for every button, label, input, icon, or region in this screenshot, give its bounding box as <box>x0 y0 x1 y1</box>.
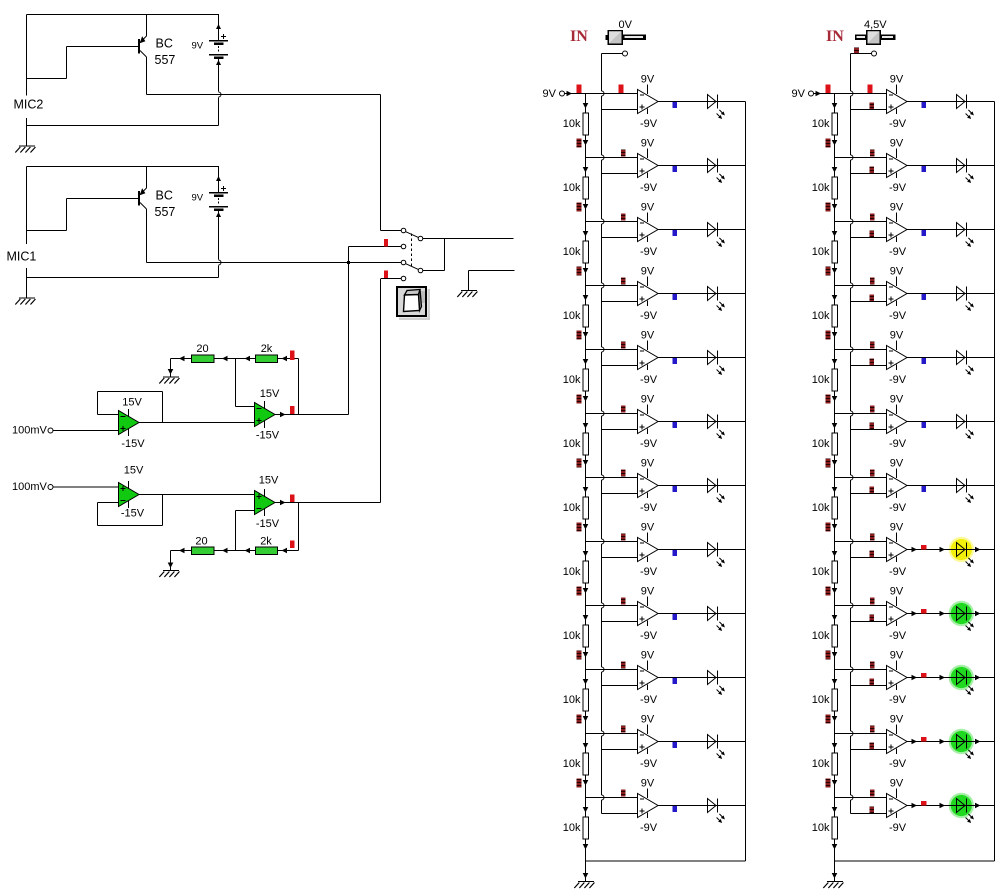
wire ladder tap to - input row 12 <box>586 797 638 799</box>
svg-text:9V: 9V <box>641 778 655 790</box>
wire comparator output row 1 <box>907 101 995 103</box>
wire + input stub row 6 <box>851 429 887 431</box>
wire + input stub row 2 <box>851 173 887 175</box>
resistor 10k #7 column B <box>832 497 838 519</box>
svg-text:10k: 10k <box>563 118 581 130</box>
current tick dark + input row 9 <box>870 615 875 622</box>
voltage tick blue output row 1 <box>673 102 678 108</box>
svg-text:557: 557 <box>155 53 176 67</box>
current arrow ladder below R row 6 <box>832 460 838 466</box>
wire comparator output row 12 <box>907 805 995 807</box>
voltage tick blue output row 3 <box>922 230 927 236</box>
svg-text:-9V: -9V <box>640 566 658 578</box>
wire comparator output row 11 <box>658 741 746 743</box>
current tick dark + input row 3 <box>870 231 875 238</box>
current tick dark + input row 4 <box>870 295 875 302</box>
resistor 10k #3 column A <box>583 241 589 263</box>
voltage tick blue output row 2 <box>922 166 927 172</box>
resistor 10k #12 column A <box>583 817 589 839</box>
LED DB9 <box>957 607 974 632</box>
resistor 10k #6 column B <box>832 433 838 455</box>
svg-text:-9V: -9V <box>640 246 658 258</box>
op-amp comparator UA8 <box>638 533 659 563</box>
svg-text:9V: 9V <box>890 74 904 86</box>
svg-text:9V: 9V <box>890 202 904 214</box>
op-amp U4 <box>255 489 276 516</box>
current tick dark ladder row 11 <box>826 779 831 788</box>
svg-text:9V: 9V <box>641 586 655 598</box>
current tick dark + input row 7 <box>870 487 875 494</box>
current arrow ladder above R row 7 <box>583 487 589 493</box>
svg-text:-9V: -9V <box>889 758 907 770</box>
LED glow green row 12 <box>949 793 974 818</box>
voltage tick blue output row 9 <box>673 614 678 620</box>
current tick dark ladder row 8 <box>826 587 831 596</box>
wire ladder tap to - input row 3 <box>586 221 638 223</box>
current tick red output row 8 <box>921 545 927 550</box>
op-amp comparator UA5 <box>638 341 659 371</box>
LED DA8 <box>708 543 725 568</box>
LED glow green row 11 <box>949 729 974 754</box>
LED DB7 <box>957 479 974 504</box>
wire comparator output row 5 <box>907 357 995 359</box>
current tick dark on IN wire <box>854 48 859 54</box>
LED DB6 <box>957 415 974 440</box>
current arrow ladder above R row 8 <box>583 551 589 557</box>
wire left rail upper MIC1 <box>26 167 28 245</box>
wire ladder tap to - input row 11 <box>586 733 638 735</box>
wire comparator output row 12 <box>658 805 746 807</box>
current arrow ladder above R row 12 <box>583 807 589 813</box>
current arrow ladder below R row 6 <box>583 460 589 466</box>
wire joining both poles outputs <box>444 239 446 271</box>
current arrow ladder above R row 4 <box>583 295 589 301</box>
op-amp comparator UB10 <box>887 661 908 691</box>
current tick dark ladder row 7 <box>577 523 582 532</box>
current tick dark ladder row 2 <box>826 203 831 212</box>
wire ladder tap to - input row 7 <box>835 477 887 479</box>
current tick dark ladder row 5 <box>826 395 831 404</box>
wire ladder tap to - input row 5 <box>586 349 638 351</box>
current arrow ladder above R row 10 <box>583 679 589 685</box>
wire comparator output row 2 <box>907 165 995 167</box>
resistor 10k #10 column A <box>583 689 589 711</box>
current tick dark - input row 4 <box>870 278 875 285</box>
LED DA11 <box>708 735 725 760</box>
terminal IN circle (column A) <box>623 51 628 56</box>
ground near switch <box>457 291 477 298</box>
current arrows resistor row bottom <box>179 548 185 554</box>
wire top rail MIC1 block <box>27 166 220 168</box>
wire IN terminal (column A) <box>602 53 623 55</box>
wire 100mV to U3 + input <box>53 486 119 488</box>
wire + input stub row 10 <box>851 685 887 687</box>
wire comparator output row 7 <box>658 485 746 487</box>
LED cathode rail column A <box>745 102 747 862</box>
svg-text:9V: 9V <box>192 193 204 204</box>
op-amp comparator UB6 <box>887 405 908 435</box>
svg-text:-9V: -9V <box>889 822 907 834</box>
current arrow ladder above R row 9 <box>583 615 589 621</box>
wire ladder tap to - input row 2 <box>835 157 887 159</box>
current tick dark - input row 3 <box>870 214 875 221</box>
svg-text:9V: 9V <box>890 778 904 790</box>
wire left rail lower MIC2 <box>26 118 28 146</box>
op-amp comparator UB2 <box>887 149 908 179</box>
op-amp U1 <box>119 409 140 436</box>
current arrow ladder below R row 10 <box>832 716 838 722</box>
current tick dark + input row 6 <box>870 423 875 430</box>
op-amp comparator UA7 <box>638 469 659 499</box>
terminal IN circle (column B) <box>872 51 877 56</box>
svg-text:-9V: -9V <box>640 310 658 322</box>
op-amp comparator UB7 <box>887 469 908 499</box>
svg-text:10k: 10k <box>812 502 830 514</box>
svg-text:0V: 0V <box>619 19 633 31</box>
current tick dark ladder row 3 <box>826 267 831 276</box>
switch S1 rocker icon <box>397 287 430 320</box>
svg-text:BC: BC <box>156 37 173 51</box>
resistor 10k #8 column B <box>832 561 838 583</box>
current arrow ladder below R row 7 <box>583 524 589 530</box>
svg-text:9V: 9V <box>641 522 655 534</box>
svg-text:10k: 10k <box>812 118 830 130</box>
resistor ladder chain wire column B <box>834 94 836 862</box>
+ input bus wire column B (with hops) <box>850 54 852 92</box>
svg-text:-9V: -9V <box>889 182 907 194</box>
current tick dark - input row 12 <box>870 790 875 797</box>
svg-text:-15V: -15V <box>121 508 145 520</box>
wire + input stub row 12 <box>602 813 638 815</box>
current arrow 9V input <box>816 91 822 97</box>
+ input bus wire column A (with hops) <box>601 54 603 92</box>
current arrow ladder below R row 3 <box>832 268 838 274</box>
svg-text:10k: 10k <box>563 694 581 706</box>
wire U1 feedback loop <box>98 414 119 416</box>
wire + input stub row 4 <box>851 301 887 303</box>
svg-text:-9V: -9V <box>640 502 658 514</box>
voltage tick blue output row 5 <box>673 358 678 364</box>
op-amp comparator UB3 <box>887 213 908 243</box>
ground stub column A <box>585 861 587 882</box>
current tick dark - input row 2 <box>621 150 626 157</box>
current tick dark ladder row 11 <box>577 779 582 788</box>
current tick dark - input row 9 <box>621 598 626 605</box>
current arrow ladder below R row 1 <box>583 140 589 146</box>
voltage tick blue output row 11 <box>673 742 678 748</box>
resistor 10k #10 column B <box>832 689 838 711</box>
wire + input stub row 5 <box>851 365 887 367</box>
svg-text:2k: 2k <box>260 536 272 548</box>
current tick dark + input row 1 <box>870 103 875 110</box>
svg-text:10k: 10k <box>812 182 830 194</box>
wire top rail MIC2 block <box>27 14 220 16</box>
op-amp comparator UB8 <box>887 533 908 563</box>
wire collector MIC2 to switch <box>147 94 381 96</box>
ground bottom resistor row <box>159 571 179 578</box>
LED DB8 <box>957 543 974 568</box>
current arrow ladder below R row 5 <box>583 396 589 402</box>
wire comparator output row 3 <box>907 229 995 231</box>
current tick dark - input row 8 <box>621 534 626 541</box>
current arrow ladder above R row 8 <box>832 551 838 557</box>
voltage tick blue output row 5 <box>922 358 927 364</box>
LED cathode rail column B <box>994 102 996 862</box>
wire ladder tap to - input row 3 <box>835 221 887 223</box>
voltage tick blue output row 6 <box>673 422 678 428</box>
voltage tick blue output row 8 <box>673 550 678 556</box>
wire + input stub row 8 <box>602 557 638 559</box>
svg-text:9V: 9V <box>543 88 557 100</box>
LED glow yellow row 8 <box>949 537 974 562</box>
svg-text:-9V: -9V <box>640 758 658 770</box>
svg-text:10k: 10k <box>812 694 830 706</box>
current tick dark ladder row 5 <box>577 395 582 404</box>
current arrow ladder above R row 2 <box>832 167 838 173</box>
current tick red top row <box>290 351 295 361</box>
wire comparator output row 4 <box>658 293 746 295</box>
current arrow ladder below R row 3 <box>583 268 589 274</box>
svg-text:2k: 2k <box>261 343 273 355</box>
current arrow ladder above R row 7 <box>832 487 838 493</box>
current arrow ladder above R row 9 <box>832 615 838 621</box>
current arrow ladder below R row 8 <box>832 588 838 594</box>
svg-text:-9V: -9V <box>889 566 907 578</box>
ground below MIC1 <box>15 298 35 305</box>
current tick dark - input row 11 <box>621 726 626 733</box>
op-amp U2 <box>255 401 276 428</box>
svg-text:-9V: -9V <box>889 502 907 514</box>
current arrow U4 output <box>280 500 286 506</box>
wire ground return rail MIC2 <box>27 125 219 127</box>
svg-text:10k: 10k <box>812 438 830 450</box>
wire + input stub row 1 <box>602 109 638 111</box>
current tick dark + input row 2 <box>870 167 875 174</box>
current tick red bottom row <box>290 541 295 549</box>
voltage tick blue output row 7 <box>922 486 927 492</box>
wire + input stub row 7 <box>602 493 638 495</box>
current tick dark + input row 12 <box>870 807 875 814</box>
LED DA10 <box>708 671 725 696</box>
current arrow 9V input <box>567 91 573 97</box>
svg-text:15V: 15V <box>259 475 279 487</box>
svg-text:9V: 9V <box>890 714 904 726</box>
wire ladder tap to - input row 5 <box>835 349 887 351</box>
LED DB11 <box>957 735 974 760</box>
current arrows output row 9 <box>912 611 918 617</box>
voltage tick blue output row 12 <box>673 806 678 812</box>
wire ladder tap to - input row 4 <box>586 285 638 287</box>
current arrow ladder above R row 4 <box>832 295 838 301</box>
resistor 10k #8 column A <box>583 561 589 583</box>
svg-text:4,5V: 4,5V <box>864 19 887 31</box>
wire + input stub row 7 <box>851 493 887 495</box>
svg-text:9V: 9V <box>890 586 904 598</box>
wire + input stub row 5 <box>602 365 638 367</box>
current arrows output row 11 <box>912 739 918 745</box>
svg-text:10k: 10k <box>563 566 581 578</box>
voltage tick blue output row 4 <box>673 294 678 300</box>
resistor 10k #12 column B <box>832 817 838 839</box>
current arrow ladder below R row 2 <box>832 204 838 210</box>
svg-text:10k: 10k <box>563 182 581 194</box>
current tick dark + input row 8 <box>870 551 875 558</box>
svg-text:10k: 10k <box>563 438 581 450</box>
current tick dark ladder row 1 <box>826 139 831 148</box>
current tick dark ladder row 9 <box>577 651 582 660</box>
wire IN terminal (column B) <box>851 53 872 55</box>
current arrow ladder below R row 4 <box>583 332 589 338</box>
wire + input stub row 9 <box>602 621 638 623</box>
op-amp comparator UA1 <box>638 85 659 115</box>
op-amp comparator UA2 <box>638 149 659 179</box>
svg-text:9V: 9V <box>792 88 806 100</box>
resistor 2k (top) <box>256 355 278 363</box>
current arrow ladder above R row 12 <box>832 807 838 813</box>
current tick dark - input row 9 <box>870 598 875 605</box>
current arrow ladder above R row 3 <box>832 231 838 237</box>
svg-text:9V: 9V <box>641 458 655 470</box>
wire ladder tap to - input row 10 <box>586 669 638 671</box>
current tick red output row 10 <box>921 673 927 678</box>
voltage tick blue output row 10 <box>673 678 678 684</box>
transistor Q BC557 (MIC2 block) <box>139 15 147 95</box>
wire comparator output row 10 <box>658 677 746 679</box>
switch arm pole 2 <box>406 264 419 270</box>
wire to ground near switch (dangling) <box>469 270 515 272</box>
wire MIC2 drop to switch pole 1 <box>380 95 382 231</box>
current tick dark ladder row 3 <box>577 267 582 276</box>
current arrow ladder below R row 7 <box>832 524 838 530</box>
svg-text:-9V: -9V <box>640 630 658 642</box>
current tick dark - input row 8 <box>870 534 875 541</box>
current arrow ladder below R row 9 <box>832 652 838 658</box>
wire comparator output row 3 <box>658 229 746 231</box>
wire gain resistor row (bottom) <box>171 550 299 552</box>
svg-text:IN: IN <box>826 28 844 45</box>
resistor 10k #1 column B <box>832 113 838 135</box>
ground stub top row <box>170 359 172 378</box>
wire ladder tap to - input row 4 <box>835 285 887 287</box>
svg-text:-15V: -15V <box>121 438 145 450</box>
wire 100mV to U1 + input <box>53 430 119 432</box>
bottom rail column B <box>835 860 995 862</box>
node junction MIC1/op-amp/switch <box>347 261 350 264</box>
wire comparator output row 2 <box>658 165 746 167</box>
switch contact C <box>401 244 406 249</box>
svg-text:-9V: -9V <box>640 438 658 450</box>
svg-text:-9V: -9V <box>889 310 907 322</box>
current tick dark - input row 10 <box>621 662 626 669</box>
svg-text:IN: IN <box>570 28 588 45</box>
resistor 10k #9 column B <box>832 625 838 647</box>
LED DA5 <box>708 351 725 376</box>
resistor 10k #5 column A <box>583 369 589 391</box>
wire + input stub row 4 <box>602 301 638 303</box>
current tick red 9V input <box>826 85 831 94</box>
current arrow ladder above R row 6 <box>583 423 589 429</box>
wire battery negative down (MIC1) with hop <box>218 218 220 260</box>
wire + input stub row 8 <box>851 557 887 559</box>
switch contact A <box>401 228 406 233</box>
wire comparator output row 6 <box>907 421 995 423</box>
current tick dark + input row 11 <box>870 743 875 750</box>
wire + input stub row 9 <box>851 621 887 623</box>
svg-text:9V: 9V <box>641 266 655 278</box>
op-amp comparator UB12 <box>887 789 908 819</box>
LED DA2 <box>708 159 725 184</box>
svg-text:20: 20 <box>196 343 208 355</box>
current arrow ladder above R row 1 <box>832 103 838 109</box>
battery 9V (MIC1 block) <box>209 167 228 218</box>
wire ladder tap to - input row 11 <box>835 733 887 735</box>
svg-text:9V: 9V <box>890 394 904 406</box>
wire ladder tap to - input row 6 <box>835 413 887 415</box>
svg-text:9V: 9V <box>641 330 655 342</box>
resistor 10k #2 column B <box>832 177 838 199</box>
resistor 20 (bottom) <box>192 547 215 555</box>
svg-text:MIC2: MIC2 <box>14 98 44 112</box>
wire comparator output row 5 <box>658 357 746 359</box>
wire comparator output row 7 <box>907 485 995 487</box>
wire ladder tap to - input row 8 <box>835 541 887 543</box>
svg-text:15V: 15V <box>260 388 280 400</box>
current tick dark ladder row 4 <box>577 331 582 340</box>
svg-text:-9V: -9V <box>640 182 658 194</box>
LED DB5 <box>957 351 974 376</box>
svg-text:100mV: 100mV <box>12 425 48 437</box>
voltage tick blue output row 1 <box>922 102 927 108</box>
svg-text:BC: BC <box>156 189 173 203</box>
current arrow ladder above R row 5 <box>583 359 589 365</box>
wire + input stub row 12 <box>851 813 887 815</box>
current tick dark - input row 4 <box>621 278 626 285</box>
current arrow ladder below R row 11 <box>583 780 589 786</box>
op-amp comparator UB9 <box>887 597 908 627</box>
resistor 10k #4 column A <box>583 305 589 327</box>
op-amp comparator UB5 <box>887 341 908 371</box>
svg-text:9V: 9V <box>890 138 904 150</box>
LED DB2 <box>957 159 974 184</box>
current tick dark ladder row 6 <box>826 459 831 468</box>
svg-text:-9V: -9V <box>889 246 907 258</box>
svg-text:10k: 10k <box>563 310 581 322</box>
op-amp comparator UA9 <box>638 597 659 627</box>
wire base branch <box>27 230 67 232</box>
current arrow ladder below R row 10 <box>583 716 589 722</box>
current tick red U2 output <box>290 406 295 414</box>
current arrow ladder above R row 5 <box>832 359 838 365</box>
svg-text:20: 20 <box>195 536 207 548</box>
voltage tick blue output row 7 <box>673 486 678 492</box>
svg-text:9V: 9V <box>641 714 655 726</box>
wire ladder tap to - input row 9 <box>835 605 887 607</box>
current tick dark - input row 2 <box>870 150 875 157</box>
wire + input stub row 10 <box>602 685 638 687</box>
svg-text:9V: 9V <box>890 266 904 278</box>
ground below MIC2 <box>15 146 35 153</box>
ground stub column B <box>834 861 836 882</box>
wire U2 output to switch node <box>275 414 349 416</box>
wire U3 output to U4 + input <box>139 494 255 496</box>
voltage tick blue output row 6 <box>922 422 927 428</box>
wire U4 output to switch node <box>275 502 381 504</box>
op-amp comparator UB1 <box>887 85 908 115</box>
wire collector MIC1 to switch node <box>147 262 349 264</box>
current tick dark - input row 6 <box>870 406 875 413</box>
LED DA12 <box>708 799 725 824</box>
wire comparator output row 9 <box>907 613 995 615</box>
